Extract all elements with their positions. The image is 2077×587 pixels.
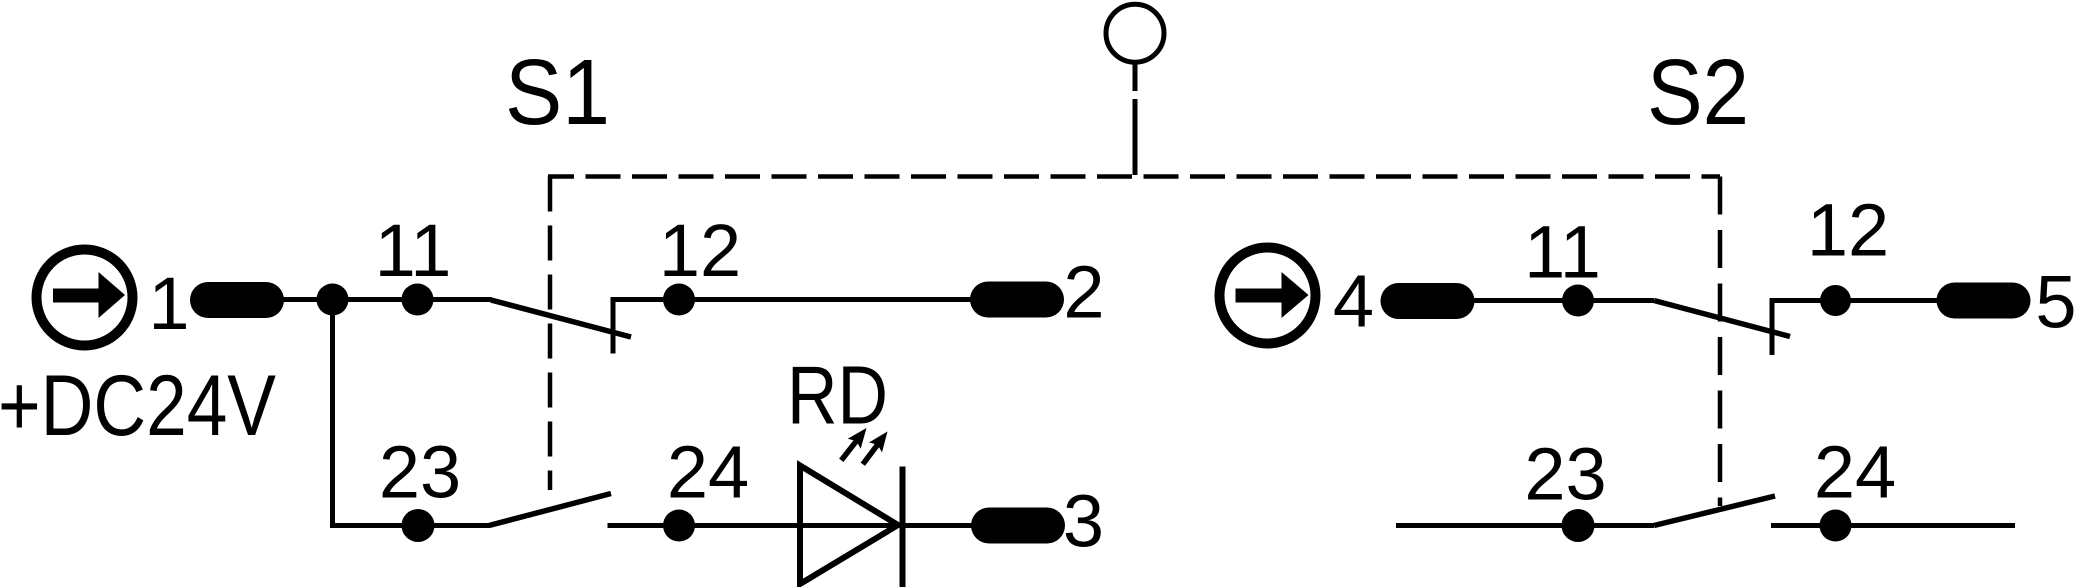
svg-text:24: 24 xyxy=(1814,431,1896,514)
contact dot 24 right xyxy=(1820,510,1852,542)
NC contact stop bar S1 xyxy=(611,297,616,354)
power source symbol left (circle with arrow) xyxy=(37,250,133,346)
LED arrow 2 xyxy=(856,427,894,470)
contact dot 11 right xyxy=(1562,285,1594,317)
S1 boundary dashed line xyxy=(548,177,553,491)
LED RD cathode bar xyxy=(900,467,906,587)
contact dot 12 left xyxy=(663,284,695,316)
NC contact blade S1 xyxy=(491,300,631,337)
wire contact 24 right xyxy=(1771,523,2015,528)
terminal pad 4 xyxy=(1381,283,1475,319)
power source symbol right (circle with arrow) xyxy=(1220,248,1316,344)
svg-text:23: 23 xyxy=(379,431,461,514)
wire pad4 to contact 11 right xyxy=(1470,298,1654,303)
contact dot 23 right xyxy=(1562,509,1595,542)
svg-text:5: 5 xyxy=(2035,261,2076,344)
svg-text:RD: RD xyxy=(787,349,888,442)
S2 boundary dashed line xyxy=(1718,177,1723,507)
wire node down to lower branch xyxy=(330,300,335,529)
NC contact blade S2 xyxy=(1654,301,1790,337)
svg-text:2: 2 xyxy=(1063,251,1104,334)
wire stop bar to pad 2 xyxy=(611,297,973,302)
wire stop bar to pad 5 xyxy=(1770,298,1939,303)
terminal pad 3 xyxy=(971,508,1065,544)
terminal pad 5 xyxy=(1937,283,2031,319)
LED arrow 1 xyxy=(835,423,873,465)
wire pad1 to node xyxy=(280,297,335,302)
LED RD triangle (anode) xyxy=(800,466,898,585)
svg-text:S2: S2 xyxy=(1647,40,1749,144)
lower wire to contact 23 xyxy=(330,523,490,528)
actuator circle xyxy=(1106,4,1164,62)
svg-text:12: 12 xyxy=(1807,189,1889,272)
contact dot 11 left xyxy=(402,284,434,316)
NO contact blade S2 xyxy=(1654,496,1775,526)
svg-text:S1: S1 xyxy=(505,40,610,144)
NO contact blade S1 xyxy=(489,494,611,526)
wire node to contact 11 xyxy=(333,297,493,302)
contact dot 24 left xyxy=(663,510,695,542)
linkage horizontal dashed line xyxy=(548,174,1720,179)
svg-text:+DC24V: +DC24V xyxy=(0,358,276,454)
svg-text:23: 23 xyxy=(1524,433,1606,516)
svg-text:11: 11 xyxy=(1524,211,1601,294)
wire to contact 23 right xyxy=(1396,523,1654,528)
svg-text:4: 4 xyxy=(1333,260,1374,343)
svg-text:3: 3 xyxy=(1063,480,1104,563)
contact dot 23 left xyxy=(402,509,435,542)
terminal pad 2 xyxy=(970,282,1064,318)
svg-text:12: 12 xyxy=(659,209,741,292)
svg-text:24: 24 xyxy=(667,431,749,514)
actuator linkage vertical dashed xyxy=(1133,62,1138,177)
terminal pad 1 xyxy=(190,282,284,318)
svg-text:1: 1 xyxy=(148,262,189,345)
svg-text:11: 11 xyxy=(375,209,452,292)
wire contact 24 to pad 3 xyxy=(608,523,973,528)
contact dot 12 right xyxy=(1820,285,1851,316)
junction node xyxy=(317,284,349,316)
NC contact stop bar S2 xyxy=(1770,298,1775,355)
